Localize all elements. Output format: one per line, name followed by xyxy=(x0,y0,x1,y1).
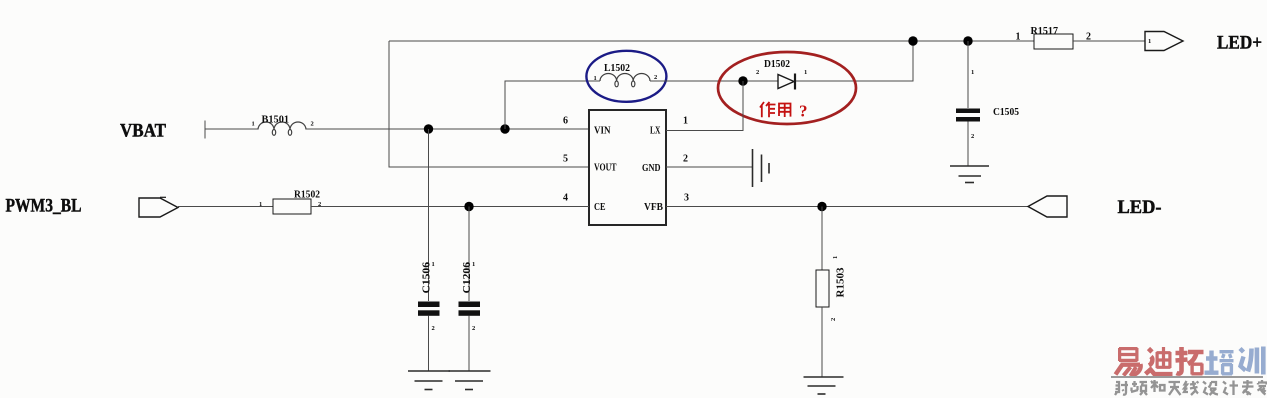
logo char 拓 (rose) xyxy=(1176,347,1204,375)
svg-text:VFB: VFB xyxy=(644,202,663,213)
resistor R1517 xyxy=(1016,26,1092,49)
svg-text:1: 1 xyxy=(1148,38,1151,45)
svg-text:L1502: L1502 xyxy=(604,63,630,74)
svg-text:5: 5 xyxy=(563,154,568,165)
node LED- xyxy=(1118,198,1162,218)
wire B1501 pin2 to VIN pin xyxy=(306,128,589,130)
svg-text:1: 1 xyxy=(804,69,807,76)
wire D1502 cathode to top rail xyxy=(796,41,913,81)
wire C1506 bottom lead xyxy=(428,316,430,372)
inductor L1502 xyxy=(594,63,658,87)
wire VOUT riser xyxy=(389,41,589,167)
svg-text:LED+: LED+ xyxy=(1217,34,1262,54)
svg-text:LX: LX xyxy=(650,126,661,137)
wire PWM3_BL to R1502 pin1 xyxy=(178,206,273,208)
logo char 培 (blue) xyxy=(1205,351,1234,375)
svg-text:1: 1 xyxy=(472,261,475,268)
ground R1503 xyxy=(804,377,844,394)
svg-text:1: 1 xyxy=(683,116,688,127)
ground C1505 xyxy=(950,166,989,183)
wire C1505 bottom lead xyxy=(967,122,969,167)
射 xyxy=(1115,382,1119,395)
svg-text:R1517: R1517 xyxy=(1031,26,1059,37)
connector LED- xyxy=(1028,196,1067,217)
wire LX stub up to diode node xyxy=(666,81,743,131)
svg-text:3: 3 xyxy=(684,193,689,204)
annotation blue ellipse around L1502 xyxy=(586,51,666,102)
ground GND pin (bar style) xyxy=(753,149,770,187)
svg-text:6: 6 xyxy=(563,116,568,127)
svg-text:CE: CE xyxy=(594,202,606,213)
svg-text:D1502: D1502 xyxy=(764,59,790,70)
capacitor C1505 xyxy=(956,69,1019,140)
wire C1206 top lead (from CE net) xyxy=(468,207,470,302)
wire R1517 pin2 to LED+ connector xyxy=(1073,40,1145,42)
connector LED+ xyxy=(1145,32,1183,51)
annotation red text 作用? xyxy=(760,102,808,121)
junction on VIN net (L1502 tap) xyxy=(500,124,509,133)
wire L1502 branch vertical xyxy=(505,81,600,129)
junction top rail / diode branch xyxy=(908,36,917,45)
resistor R1503 xyxy=(816,256,847,321)
svg-text:R1502: R1502 xyxy=(294,190,320,201)
pin mark inside LED+ connector xyxy=(1148,38,1151,45)
wire VBAT to B1501 pin1 xyxy=(205,128,258,130)
svg-text:1: 1 xyxy=(971,69,974,76)
wire R1503 bottom lead xyxy=(821,307,823,377)
svg-text:1: 1 xyxy=(594,75,597,82)
pin number 5 (VOUT) xyxy=(563,154,568,165)
svg-text:PWM3_BL: PWM3_BL xyxy=(6,197,82,217)
svg-text:2: 2 xyxy=(756,69,759,76)
天 xyxy=(1169,382,1181,395)
junction top rail / C1505 tap xyxy=(963,36,972,45)
wire R1502 pin2 to CE pin xyxy=(311,206,589,208)
svg-text:2: 2 xyxy=(472,325,475,332)
op-amp U1 (driver IC) body xyxy=(589,110,666,225)
junction CE net / C1206 tap xyxy=(464,202,473,211)
线 xyxy=(1184,381,1188,392)
svg-text:B1501: B1501 xyxy=(262,115,290,126)
svg-text:VIN: VIN xyxy=(594,126,611,137)
svg-text:C1505: C1505 xyxy=(993,107,1019,118)
svg-text:GND: GND xyxy=(642,163,661,174)
capacitor C1506 xyxy=(418,261,440,332)
pin number 3 (VFB) xyxy=(684,193,689,204)
ground C1206 xyxy=(449,371,491,390)
svg-text:2: 2 xyxy=(830,318,837,321)
junction VFB net / R1503 tap xyxy=(817,202,826,211)
专 xyxy=(1242,380,1254,395)
设 xyxy=(1203,382,1208,395)
pin number 6 (VIN) xyxy=(563,116,568,127)
logo char 训 (blue) xyxy=(1240,347,1263,375)
logo subtext 射频和天线设计专家 xyxy=(1115,380,1267,395)
junction on VIN net (C1506 tap) xyxy=(424,124,433,133)
svg-text:VBAT: VBAT xyxy=(120,122,167,142)
logo underline xyxy=(1111,376,1263,378)
wire VBAT open-end tick xyxy=(204,121,206,139)
svg-text:1: 1 xyxy=(252,121,255,128)
svg-text:4: 4 xyxy=(563,193,568,204)
watermark logo 易迪拓培训 / 射频和天线设计专家 xyxy=(1111,347,1267,396)
resistor R1502 xyxy=(259,190,321,215)
pin number 2 (GND) xyxy=(683,154,688,165)
wire top rail xyxy=(389,40,1034,42)
家 xyxy=(1258,380,1267,395)
capacitor C1206 xyxy=(459,261,481,332)
计 xyxy=(1223,382,1228,395)
svg-text:R1503: R1503 xyxy=(836,268,847,298)
logo char 迪 (rose) xyxy=(1146,347,1173,374)
wire C1206 bottom lead xyxy=(468,316,470,372)
和 xyxy=(1151,380,1158,392)
wire C1505 top lead xyxy=(967,41,969,108)
wire GND stub xyxy=(666,166,752,168)
svg-text:2: 2 xyxy=(654,74,657,81)
node VBAT xyxy=(120,122,167,142)
ground C1506 xyxy=(408,371,450,390)
pin number 4 (CE) xyxy=(563,193,568,204)
junction diode anode / LX node xyxy=(738,76,747,85)
svg-text:1: 1 xyxy=(1016,32,1021,43)
node PWM3_BL xyxy=(6,197,82,217)
pin number 1 (LX) xyxy=(683,116,688,127)
svg-text:1: 1 xyxy=(259,201,262,208)
connector PWM3_BL xyxy=(139,197,178,217)
svg-text:1: 1 xyxy=(432,261,435,268)
wire C1506 top lead (from VIN net) xyxy=(428,129,430,301)
svg-text:2: 2 xyxy=(971,133,974,140)
svg-text:2: 2 xyxy=(683,154,688,165)
svg-text:2: 2 xyxy=(311,121,314,128)
svg-text:1: 1 xyxy=(832,256,839,259)
diode D1502 xyxy=(756,59,807,90)
logo char 易 (rose) xyxy=(1116,348,1141,376)
svg-text:VOUT: VOUT xyxy=(594,163,617,174)
wire VFB pin to LED- connector xyxy=(666,206,1028,208)
wire L1502 pin2 to diode node xyxy=(650,80,778,82)
svg-text:LED-: LED- xyxy=(1118,198,1162,218)
node LED+ xyxy=(1217,34,1262,54)
inductor B1501 xyxy=(252,115,314,136)
annotation red ellipse around D1502 xyxy=(718,52,856,124)
svg-text:2: 2 xyxy=(432,325,435,332)
wire R1503 top lead xyxy=(821,207,823,271)
频 xyxy=(1131,381,1138,392)
svg-text:?: ? xyxy=(799,102,808,121)
